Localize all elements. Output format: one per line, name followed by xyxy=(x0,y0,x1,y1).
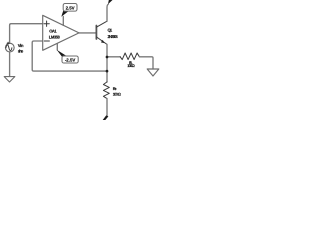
wire op-amp V- pin xyxy=(56,44,58,50)
wire collector up to flag xyxy=(107,4,108,21)
ground (right) xyxy=(147,69,159,76)
wire RL to right ground xyxy=(139,57,153,69)
svg-text:-2.5V: -2.5V xyxy=(65,57,76,62)
source sine squiggle xyxy=(6,45,12,51)
wire Vin top to op-amp + input xyxy=(10,24,43,44)
flag tail -2.5V xyxy=(57,50,67,57)
ground (source) xyxy=(4,77,15,82)
transistor Q1 emitter diagonal xyxy=(96,37,107,45)
junction dot emitter node xyxy=(106,56,109,59)
emitter arrow xyxy=(101,40,105,43)
wire inverting input feedback xyxy=(32,41,107,71)
op-amp - input symbol xyxy=(44,40,49,42)
svg-text:2.5V: 2.5V xyxy=(66,5,75,10)
resistor RL zigzag xyxy=(120,53,139,60)
svg-text:OA1: OA1 xyxy=(49,29,57,34)
wire emitter node to RL xyxy=(107,56,120,58)
flag tail 5V collector (clipped top) xyxy=(108,0,113,4)
svg-text:2N3904: 2N3904 xyxy=(108,34,119,39)
net flag box -2.5V xyxy=(62,56,78,63)
op-amp OA1 triangle xyxy=(43,15,79,50)
svg-text:Q1: Q1 xyxy=(108,28,113,33)
wire emitter node down to Re xyxy=(106,57,108,82)
source plus mark xyxy=(7,42,9,44)
svg-text:LM358: LM358 xyxy=(49,34,61,39)
junction dot feedback node xyxy=(106,70,109,73)
transistor Q1 collector diagonal xyxy=(96,21,107,27)
op-amp + input symbol xyxy=(44,21,49,26)
wire op-amp V+ pin xyxy=(62,17,64,26)
wire op-amp output to base xyxy=(79,32,96,34)
svg-text:sine: sine xyxy=(18,48,24,53)
svg-text:100 Ω: 100 Ω xyxy=(113,91,121,96)
net flag box 2.5V xyxy=(63,4,77,12)
svg-text:100 Ω: 100 Ω xyxy=(127,63,135,68)
resistor Re zigzag xyxy=(103,82,109,99)
wire Re down to bottom flag xyxy=(106,99,108,116)
flag tail ground Re (clipped bottom) xyxy=(103,115,109,120)
source V1 Vin sine xyxy=(5,43,14,52)
wire Vin bottom to ground xyxy=(9,52,11,76)
transistor Q1 base bar xyxy=(95,26,97,40)
wire emitter down to node xyxy=(106,44,108,57)
flag tail +2.5V xyxy=(61,11,68,17)
